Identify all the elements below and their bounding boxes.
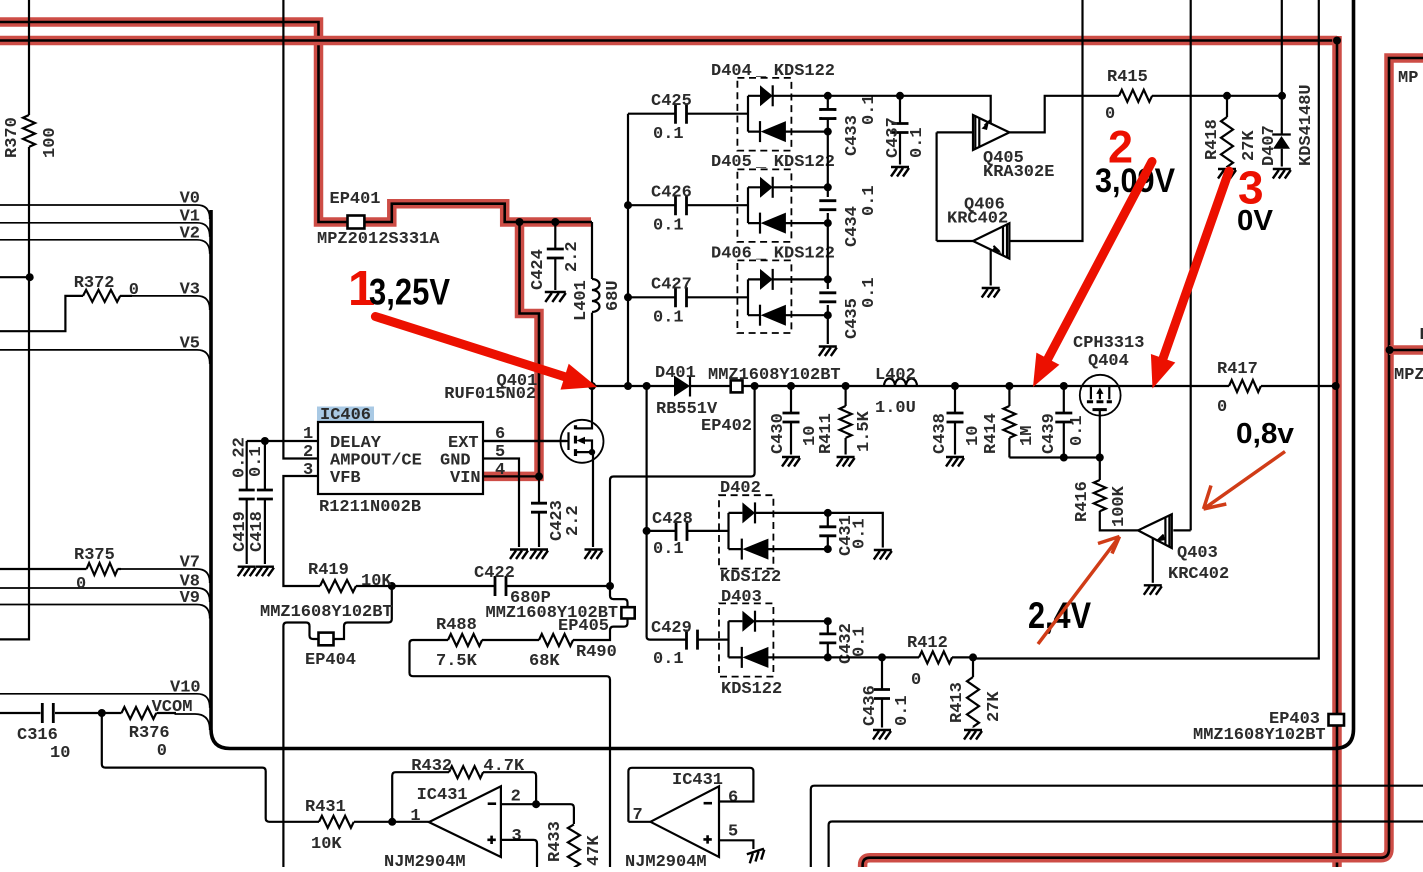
ground Q401 source	[585, 550, 603, 560]
svg-text:3: 3	[512, 827, 522, 846]
annotation arrow 2,4V	[1038, 537, 1120, 645]
svg-text:D406: D406	[711, 245, 752, 264]
resistor R415	[1105, 68, 1286, 124]
svg-text:R372: R372	[74, 274, 115, 293]
node V1 wire	[0, 223, 210, 237]
ferrite bead EP401	[330, 190, 381, 229]
wire Q406 collector to vertical	[1009, 0, 1082, 241]
svg-text:0.1: 0.1	[653, 309, 684, 328]
svg-text:MMZ1608Y102BT: MMZ1608Y102BT	[260, 603, 393, 622]
svg-text:4.7K: 4.7K	[483, 757, 525, 776]
resistor R488	[410, 616, 611, 867]
ground Q403	[1144, 585, 1162, 595]
svg-text:V3: V3	[180, 280, 200, 299]
annotation arrow 2	[1033, 162, 1152, 388]
op-amp IC431 second	[625, 771, 738, 872]
capacitor C438	[931, 386, 983, 467]
node V8 wire	[0, 588, 210, 602]
capacitor C433	[819, 94, 879, 156]
svg-text:C418: C418	[248, 511, 267, 552]
resistor R433	[546, 821, 604, 867]
wire top net C433 to Q405 base	[828, 96, 991, 124]
svg-text:KDS122: KDS122	[774, 153, 835, 172]
svg-text:D407: D407	[1260, 125, 1279, 166]
svg-text:EP402: EP402	[701, 417, 752, 436]
svg-text:0: 0	[157, 742, 167, 761]
svg-text:MPZ: MPZ	[1394, 366, 1423, 385]
net red vertical trace right through EP403	[1333, 36, 1341, 867]
wire pin7 feedback loop	[628, 768, 753, 822]
net red bus 2 second horizontal bus	[0, 36, 1337, 46]
capacitor C429	[651, 619, 729, 669]
svg-text:R488: R488	[436, 616, 477, 635]
svg-text:KDS122: KDS122	[774, 245, 835, 264]
ferrite bead EP404 MMZ1608Y102BT	[260, 586, 393, 867]
transistor Q401 RUF015N02	[444, 372, 603, 547]
svg-text:D401: D401	[655, 364, 696, 383]
svg-text:R413: R413	[948, 682, 967, 723]
capacitor C436	[861, 657, 912, 739]
pin 1 wire	[247, 437, 318, 445]
capacitor C418	[247, 441, 274, 576]
wire Q405 emitter left	[937, 131, 973, 133]
node VCOM wire	[175, 714, 210, 730]
svg-text:2.2: 2.2	[563, 241, 582, 272]
transistor Q406 KRC402	[947, 196, 1009, 259]
resistor R413	[948, 657, 1004, 739]
junction dots EP401 trace	[516, 218, 560, 226]
diode D404 KDS122	[737, 78, 831, 151]
wire C425 bus vertical	[624, 114, 632, 386]
wire R431 input net	[102, 713, 319, 822]
svg-text:R416: R416	[1073, 481, 1092, 522]
pin 5 wire GND	[483, 459, 528, 560]
svg-text:EP405: EP405	[558, 617, 609, 636]
capacitor C435	[819, 277, 879, 339]
resistor R490	[482, 634, 617, 671]
svg-text:0.1: 0.1	[653, 217, 684, 236]
ground Q406	[982, 288, 1000, 298]
ferrite bead EP402 MMZ1608Y102BT	[701, 366, 841, 436]
svg-text:0,8v: 0,8v	[1236, 418, 1294, 450]
svg-text:2.2: 2.2	[564, 505, 583, 536]
svg-text:MMZ1608Y102BT: MMZ1608Y102BT	[1193, 726, 1326, 745]
svg-text:KDS122: KDS122	[721, 680, 782, 699]
svg-text:AMPOUT/CE: AMPOUT/CE	[330, 452, 422, 471]
svg-text:10K: 10K	[311, 835, 342, 854]
svg-text:L402: L402	[875, 366, 916, 385]
svg-text:V0: V0	[180, 190, 200, 209]
wire main output net	[588, 382, 1340, 390]
svg-text:0.1: 0.1	[653, 125, 684, 144]
svg-text:R433: R433	[546, 821, 565, 862]
op-amp IC431 first	[384, 786, 522, 872]
svg-text:Q403: Q403	[1177, 544, 1218, 563]
diode D403 KDS122	[719, 603, 832, 676]
svg-text:L401: L401	[572, 280, 591, 321]
wire Q405-Q406 link vertical	[935, 132, 937, 241]
resistor R414	[982, 386, 1037, 458]
wire Q406 emitter to ground	[990, 250, 992, 286]
node V10 wire	[0, 694, 210, 708]
inductor L401	[572, 222, 623, 386]
diode D402 KDS122	[719, 495, 832, 568]
resistor R416	[1073, 458, 1138, 531]
net VIN red bus 1 top, turns down into EP401	[0, 22, 592, 476]
wire net main line to EP405 loop	[606, 386, 755, 590]
wire C439 R414 bottom net	[1009, 454, 1103, 462]
node V9 wire	[0, 605, 210, 619]
capacitor C427	[628, 276, 748, 328]
node V7 wire	[120, 569, 210, 583]
wire pin2 net	[501, 800, 574, 824]
wire net D403 bottom R412	[828, 653, 977, 661]
svg-text:D403: D403	[721, 588, 762, 607]
resistor R370	[3, 115, 60, 158]
svg-text:R432: R432	[411, 757, 452, 776]
svg-text:VIN: VIN	[450, 469, 481, 488]
svg-text:C316: C316	[17, 726, 58, 745]
svg-text:KRC402: KRC402	[947, 210, 1008, 229]
svg-text:R414: R414	[982, 413, 1001, 454]
svg-text:68U: 68U	[604, 280, 623, 311]
annotation arrow 1	[375, 317, 597, 390]
pin 6 wire EXT to Q401 gate	[483, 440, 566, 442]
svg-text:0.1: 0.1	[860, 94, 879, 125]
svg-text:D404: D404	[711, 62, 752, 81]
svg-text:R419: R419	[308, 561, 349, 580]
svg-text:C426: C426	[651, 184, 692, 203]
svg-text:VFB: VFB	[330, 469, 361, 488]
svg-text:R376: R376	[129, 724, 170, 743]
svg-text:NJM2904M: NJM2904M	[384, 853, 466, 867]
ground D407	[1273, 169, 1291, 179]
pin 4 wire VIN	[483, 472, 543, 480]
wire vertical net x1190	[1190, 0, 1192, 530]
svg-text:0.1: 0.1	[653, 540, 684, 559]
capacitor C424	[529, 222, 582, 302]
annotation arrow 3	[1151, 171, 1229, 389]
svg-text:C427: C427	[651, 276, 692, 295]
capacitor C434	[819, 185, 879, 247]
svg-text:_: _	[755, 62, 767, 81]
svg-text:R415: R415	[1107, 68, 1148, 87]
transistor Q403 KRC402	[1138, 514, 1229, 584]
svg-text:3,25V: 3,25V	[369, 272, 450, 313]
svg-text:V10: V10	[170, 678, 201, 697]
svg-text:R490: R490	[576, 643, 617, 662]
svg-text:V5: V5	[180, 334, 200, 353]
resistor R419	[308, 561, 396, 592]
svg-text:C429: C429	[651, 619, 692, 638]
wire C431 top net to ground	[828, 513, 892, 560]
svg-text:CPH3313: CPH3313	[1073, 334, 1144, 353]
capacitor C425	[628, 92, 748, 144]
svg-text:100: 100	[41, 127, 60, 158]
svg-text:KDS122: KDS122	[774, 62, 835, 81]
wire left vertical	[0, 0, 29, 639]
capacitor C439	[1040, 386, 1087, 458]
svg-text:0.1: 0.1	[860, 277, 879, 308]
svg-text:0: 0	[1217, 398, 1227, 417]
svg-text:0.1: 0.1	[893, 695, 912, 726]
svg-text:EXT: EXT	[448, 434, 479, 453]
svg-text:VCOM: VCOM	[152, 698, 193, 717]
svg-text:V7: V7	[180, 554, 200, 573]
svg-text:EP401: EP401	[330, 190, 381, 209]
wire net from main line down to C428/C429	[643, 386, 679, 640]
IC IC406 R1211N002B	[303, 406, 505, 517]
svg-text:C439: C439	[1040, 413, 1059, 454]
svg-text:0: 0	[129, 281, 139, 300]
svg-text:R412: R412	[907, 634, 948, 653]
svg-text:C436: C436	[861, 685, 880, 726]
resistor R418	[1203, 96, 1259, 167]
transistor Q404 CPH3313	[1073, 334, 1144, 458]
svg-text:R411: R411	[817, 413, 836, 454]
svg-text:27K: 27K	[985, 691, 1004, 722]
diode D406 KDS122	[737, 260, 831, 333]
svg-text:C428: C428	[652, 510, 693, 529]
svg-text:0.1: 0.1	[851, 518, 870, 549]
annotation arrow 0,8v	[1204, 452, 1286, 510]
svg-text:V9: V9	[180, 589, 200, 608]
svg-text:_: _	[755, 153, 767, 172]
capacitor C428	[647, 510, 729, 559]
svg-text:C422: C422	[474, 564, 515, 583]
diode D407 KDS4148U	[1260, 0, 1316, 167]
svg-text:D405: D405	[711, 153, 752, 172]
svg-text:0: 0	[911, 671, 921, 690]
node V2 wire	[0, 240, 210, 254]
svg-text:3: 3	[303, 461, 313, 480]
svg-text:R431: R431	[305, 798, 346, 817]
svg-text:IC431: IC431	[672, 771, 723, 790]
pin 2 wire net from top	[283, 0, 318, 459]
svg-text:C424: C424	[529, 249, 548, 290]
svg-text:1.0U: 1.0U	[875, 399, 916, 418]
svg-text:B: B	[1420, 326, 1423, 345]
svg-text:V2: V2	[180, 224, 200, 243]
svg-text:R418: R418	[1203, 119, 1222, 160]
svg-text:RUF015N02: RUF015N02	[444, 385, 536, 404]
wire C433 column vertical to ground	[819, 96, 837, 356]
svg-text:C430: C430	[769, 413, 788, 454]
svg-text:KDS4148U: KDS4148U	[1297, 84, 1316, 166]
capacitor C426	[628, 184, 748, 236]
capacitor C431	[819, 513, 869, 556]
wire Q405 collector to R415 net	[1009, 96, 1119, 133]
transistor Q405 KRA302E	[973, 115, 1054, 182]
svg-text:47K: 47K	[585, 835, 604, 866]
svg-text:0.1: 0.1	[247, 446, 266, 477]
svg-text:IC431: IC431	[417, 786, 468, 805]
resistor R411	[817, 386, 874, 467]
svg-text:1.5K: 1.5K	[855, 410, 874, 452]
svg-text:C438: C438	[931, 413, 950, 454]
node V5 wire	[0, 350, 210, 364]
resistor R375	[0, 546, 121, 594]
svg-text:7.5K: 7.5K	[436, 652, 478, 671]
wire vertical net x1318 R412 loop	[973, 0, 1319, 659]
svg-text:KRA302E: KRA302E	[983, 163, 1054, 182]
diode D405 KDS122	[737, 169, 831, 242]
node V0 wire	[0, 205, 210, 219]
svg-text:10: 10	[50, 744, 70, 763]
capacitor C430	[769, 386, 820, 467]
svg-text:0.1: 0.1	[851, 626, 870, 657]
wire pin5 to ground	[719, 840, 767, 863]
svg-text:_: _	[755, 245, 767, 264]
svg-text:68K: 68K	[529, 652, 560, 671]
resistor R432 feedback	[392, 757, 536, 822]
svg-text:D402: D402	[720, 479, 761, 498]
wire bottom frame line 2	[829, 822, 1423, 868]
svg-text:DELAY: DELAY	[330, 434, 382, 453]
wire Q406 left	[937, 240, 973, 242]
node V3 wire	[131, 296, 210, 310]
svg-text:Q404: Q404	[1088, 352, 1129, 371]
svg-text:GND: GND	[440, 452, 471, 471]
svg-text:R370: R370	[3, 117, 22, 158]
red frame box right side	[863, 58, 1423, 867]
diode D401 RB551V	[655, 364, 718, 419]
svg-text:10: 10	[964, 426, 983, 446]
capacitor C432	[819, 622, 869, 664]
wire bottom frame line 1	[811, 786, 1423, 867]
svg-text:1M: 1M	[1018, 426, 1037, 446]
svg-text:0.1: 0.1	[908, 127, 927, 158]
wire Q403 collector	[1173, 529, 1190, 531]
svg-text:6: 6	[728, 789, 738, 808]
wire pin3 net	[501, 840, 537, 867]
svg-text:10K: 10K	[361, 572, 392, 591]
svg-text:0.1: 0.1	[860, 185, 879, 216]
wire stub into left vertical	[0, 273, 34, 281]
svg-text:100K: 100K	[1110, 485, 1129, 527]
net V bus bar thick joining bottom bus	[211, 0, 1354, 749]
svg-text:0.1: 0.1	[653, 650, 684, 669]
svg-text:MMZ1608Y102BT: MMZ1608Y102BT	[708, 366, 841, 385]
capacitor C419	[231, 437, 256, 576]
resistor R372	[0, 274, 139, 331]
svg-text:NJM2904M: NJM2904M	[625, 853, 707, 867]
svg-text:R417: R417	[1217, 360, 1258, 379]
svg-text:EP404: EP404	[305, 651, 356, 670]
svg-text:KRC402: KRC402	[1168, 565, 1229, 584]
ground R418	[1218, 169, 1236, 179]
capacitor C422	[392, 564, 610, 608]
resistor R431	[305, 798, 429, 854]
svg-text:KDS122: KDS122	[720, 568, 781, 587]
svg-text:MPZ2012S331A: MPZ2012S331A	[317, 230, 440, 249]
capacitor C423	[530, 476, 583, 559]
pin 3 wire to R419	[283, 476, 320, 586]
wire Q403 emitter	[1152, 538, 1154, 583]
resistor R412	[907, 634, 952, 690]
svg-text:0V: 0V	[1237, 205, 1274, 237]
svg-text:C425: C425	[651, 92, 692, 111]
red branch wire from right frame	[1386, 346, 1423, 354]
ferrite bead EP405 MMZ1608Y102BT	[486, 586, 635, 640]
svg-text:27K: 27K	[1240, 130, 1259, 161]
resistor R417	[1217, 360, 1261, 417]
svg-text:R375: R375	[74, 546, 115, 565]
svg-text:1: 1	[410, 807, 420, 826]
capacitor C437	[884, 92, 927, 177]
resistor R376	[98, 707, 176, 761]
inductor L402	[875, 366, 917, 418]
ferrite bead EP403 MMZ1608Y102BT	[1193, 710, 1344, 745]
svg-text:MP: MP	[1398, 69, 1418, 88]
svg-text:0.1: 0.1	[1068, 415, 1087, 446]
capacitor C316	[0, 703, 102, 763]
svg-text:0: 0	[76, 575, 86, 594]
svg-text:C437: C437	[884, 117, 903, 158]
svg-text:R1211N002B: R1211N002B	[319, 498, 421, 517]
svg-text:5: 5	[728, 823, 738, 842]
